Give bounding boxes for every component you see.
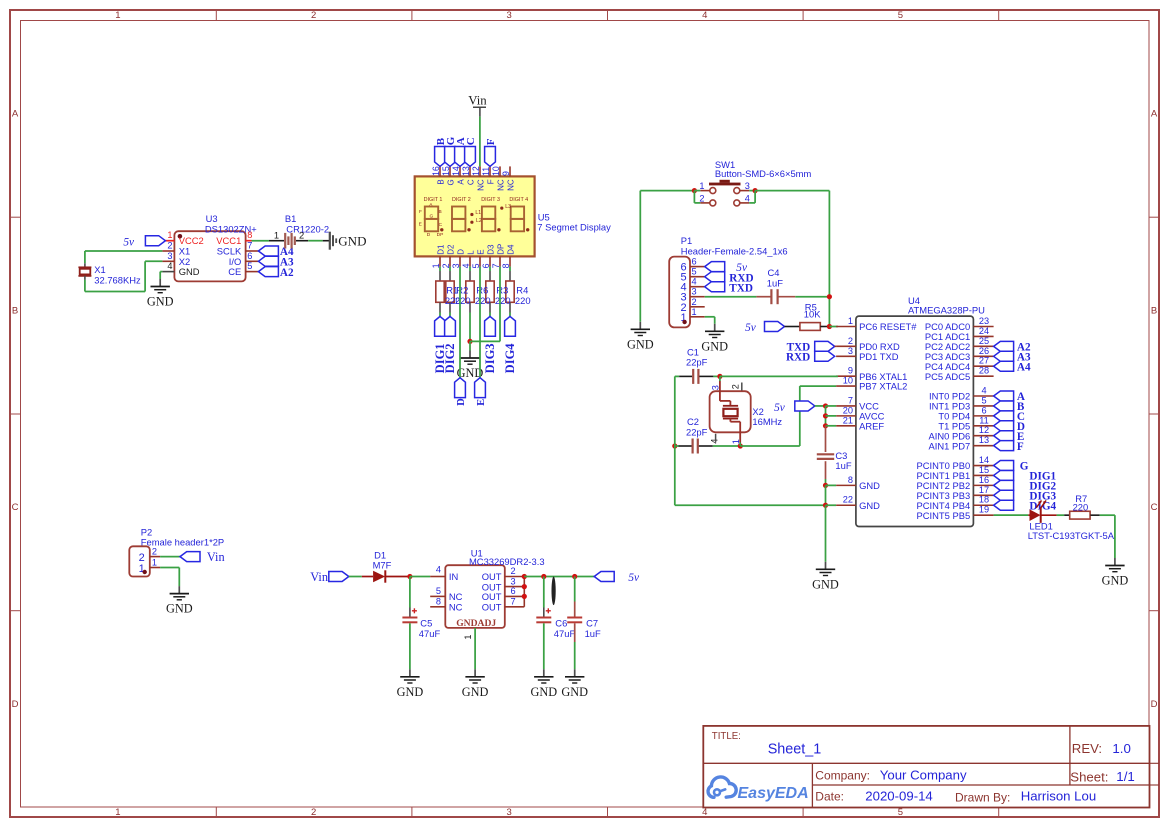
- svg-text:2: 2: [692, 297, 697, 307]
- svg-text:Sheet_1: Sheet_1: [768, 741, 822, 757]
- svg-text:GND: GND: [561, 685, 588, 699]
- svg-text:14: 14: [979, 455, 989, 465]
- svg-text:220: 220: [515, 295, 531, 306]
- svg-text:DIG4: DIG4: [503, 343, 517, 374]
- svg-text:12: 12: [979, 425, 989, 435]
- svg-text:17: 17: [979, 485, 989, 495]
- svg-text:2: 2: [167, 241, 172, 251]
- svg-text:13: 13: [979, 435, 989, 445]
- svg-text:2: 2: [731, 384, 741, 389]
- svg-text:26: 26: [979, 346, 989, 356]
- svg-text:2: 2: [510, 566, 515, 576]
- svg-text:DIG3: DIG3: [483, 343, 497, 373]
- svg-text:Sheet:: Sheet:: [1070, 770, 1108, 785]
- svg-text:C7: C7: [586, 618, 598, 629]
- svg-text:27: 27: [979, 356, 989, 366]
- svg-text:7: 7: [848, 395, 853, 405]
- svg-text:4: 4: [692, 277, 697, 287]
- svg-text:L: L: [466, 250, 475, 255]
- svg-text:5v: 5v: [774, 402, 786, 414]
- svg-text:RXD: RXD: [786, 351, 810, 363]
- svg-text:2: 2: [299, 229, 304, 240]
- svg-text:A2: A2: [280, 267, 294, 279]
- svg-text:220: 220: [495, 295, 511, 306]
- svg-text:2: 2: [152, 547, 157, 557]
- svg-text:10: 10: [491, 166, 501, 176]
- svg-text:19: 19: [979, 505, 989, 515]
- svg-text:GND: GND: [859, 480, 880, 491]
- svg-text:GND: GND: [627, 337, 654, 351]
- svg-text:220: 220: [1073, 501, 1089, 512]
- svg-text:GND: GND: [147, 295, 174, 309]
- svg-text:D3: D3: [486, 244, 495, 255]
- svg-text:E: E: [476, 399, 487, 406]
- svg-text:5: 5: [981, 395, 986, 405]
- svg-text:GND: GND: [397, 685, 424, 699]
- svg-text:47uF: 47uF: [554, 628, 576, 639]
- svg-text:C: C: [439, 222, 443, 228]
- svg-text:Vin: Vin: [310, 570, 328, 584]
- svg-text:F: F: [419, 209, 422, 215]
- svg-text:11: 11: [979, 415, 989, 425]
- svg-text:IN: IN: [449, 571, 458, 582]
- svg-text:5v: 5v: [745, 322, 757, 334]
- svg-text:22pF: 22pF: [686, 427, 708, 438]
- svg-text:C5: C5: [420, 618, 432, 629]
- svg-text:21: 21: [843, 415, 853, 425]
- svg-text:G: G: [446, 179, 455, 185]
- svg-text:22pF: 22pF: [686, 357, 708, 368]
- svg-text:D1: D1: [436, 244, 445, 255]
- svg-text:PB7 XTAL2: PB7 XTAL2: [859, 381, 907, 392]
- svg-text:3: 3: [507, 10, 512, 21]
- svg-text:1: 1: [167, 230, 172, 240]
- svg-text:3: 3: [510, 576, 515, 586]
- svg-text:TXD: TXD: [729, 282, 753, 294]
- svg-text:ATMEGA328P-PU: ATMEGA328P-PU: [908, 305, 985, 316]
- svg-text:220: 220: [455, 295, 471, 306]
- svg-text:DIGIT 3: DIGIT 3: [481, 197, 500, 203]
- svg-text:220: 220: [475, 295, 491, 306]
- svg-text:1uF: 1uF: [767, 278, 783, 289]
- svg-text:4: 4: [981, 386, 986, 396]
- svg-text:C: C: [12, 502, 19, 513]
- svg-text:DIG2: DIG2: [443, 343, 457, 373]
- svg-text:A: A: [456, 179, 465, 185]
- svg-text:4: 4: [702, 807, 707, 818]
- svg-text:4: 4: [436, 564, 441, 574]
- svg-text:PD1 TXD: PD1 TXD: [859, 351, 899, 362]
- svg-text:GND: GND: [701, 339, 728, 353]
- svg-text:6: 6: [981, 405, 986, 415]
- svg-text:EasyEDA: EasyEDA: [738, 785, 809, 802]
- svg-text:4: 4: [710, 439, 720, 444]
- svg-text:GND: GND: [812, 577, 839, 591]
- svg-text:1.0: 1.0: [1112, 741, 1131, 756]
- svg-text:1/1: 1/1: [1116, 769, 1135, 784]
- svg-text:12: 12: [471, 166, 481, 176]
- svg-text:4: 4: [745, 193, 750, 203]
- svg-text:F: F: [485, 138, 497, 145]
- svg-text:MC33269DR2-3.3: MC33269DR2-3.3: [469, 556, 545, 567]
- svg-text:GNDADJ: GNDADJ: [456, 618, 496, 629]
- svg-text:D: D: [427, 232, 431, 238]
- svg-text:Company:: Company:: [815, 769, 870, 783]
- svg-text:28: 28: [979, 366, 989, 376]
- svg-text:8: 8: [848, 475, 853, 485]
- svg-text:22: 22: [843, 495, 853, 505]
- svg-text:GND: GND: [179, 266, 200, 277]
- svg-text:1: 1: [152, 558, 157, 568]
- svg-text:OUT: OUT: [482, 591, 502, 602]
- svg-text:DIG4: DIG4: [1029, 500, 1056, 512]
- svg-text:NC: NC: [476, 179, 485, 191]
- svg-text:GND: GND: [462, 685, 489, 699]
- svg-text:3: 3: [507, 807, 512, 818]
- svg-text:D: D: [456, 249, 465, 255]
- svg-text:DP: DP: [496, 244, 505, 255]
- svg-text:2: 2: [311, 807, 316, 818]
- svg-text:5: 5: [898, 10, 903, 21]
- svg-text:13: 13: [461, 166, 471, 176]
- svg-text:AREF: AREF: [859, 420, 884, 431]
- svg-text:PC6 RESET#: PC6 RESET#: [859, 321, 917, 332]
- svg-text:3: 3: [848, 346, 853, 356]
- svg-text:C: C: [1151, 502, 1158, 513]
- svg-text:4: 4: [167, 261, 172, 271]
- svg-text:1: 1: [463, 634, 473, 639]
- svg-text:GND: GND: [859, 500, 880, 511]
- svg-text:NC: NC: [449, 602, 463, 613]
- svg-text:L3: L3: [505, 204, 511, 210]
- svg-text:4: 4: [702, 10, 707, 21]
- svg-text:23: 23: [979, 316, 989, 326]
- svg-text:6: 6: [692, 257, 697, 267]
- svg-text:16MHz: 16MHz: [752, 416, 782, 427]
- svg-text:D4: D4: [506, 244, 515, 255]
- svg-text:5v: 5v: [628, 572, 640, 584]
- svg-text:PC5 ADC5: PC5 ADC5: [925, 371, 970, 382]
- svg-text:1: 1: [115, 807, 120, 818]
- svg-text:6: 6: [510, 586, 515, 596]
- svg-text:10: 10: [843, 376, 853, 386]
- svg-text:24: 24: [979, 326, 989, 336]
- svg-text:14: 14: [451, 166, 461, 176]
- svg-text:NC: NC: [449, 591, 463, 602]
- svg-text:CR1220-2: CR1220-2: [286, 223, 329, 234]
- svg-text:L1: L1: [475, 210, 481, 216]
- svg-text:D: D: [456, 398, 467, 406]
- svg-text:5v: 5v: [123, 236, 135, 248]
- svg-text:7 Segmet Display: 7 Segmet Display: [537, 222, 611, 233]
- svg-text:DP: DP: [437, 232, 444, 238]
- svg-text:A: A: [12, 109, 19, 120]
- svg-text:1: 1: [699, 181, 704, 191]
- svg-text:NC: NC: [506, 179, 515, 191]
- svg-text:10K: 10K: [804, 308, 821, 319]
- svg-text:G: G: [430, 214, 434, 220]
- svg-text:A4: A4: [1017, 361, 1031, 373]
- svg-text:1: 1: [692, 307, 697, 317]
- svg-text:Harrison Lou: Harrison Lou: [1021, 789, 1096, 804]
- svg-text:25: 25: [979, 336, 989, 346]
- svg-text:18: 18: [979, 495, 989, 505]
- svg-text:8: 8: [436, 597, 441, 607]
- svg-text:PCINT5 PB5: PCINT5 PB5: [917, 510, 971, 521]
- svg-text:C: C: [465, 137, 477, 145]
- svg-text:3: 3: [692, 287, 697, 297]
- svg-text:G: G: [1020, 461, 1029, 473]
- svg-text:C6: C6: [555, 618, 567, 629]
- svg-text:Vin: Vin: [468, 94, 487, 108]
- svg-text:5: 5: [436, 586, 441, 596]
- svg-text:GND: GND: [338, 233, 366, 248]
- svg-text:7: 7: [247, 241, 252, 251]
- svg-text:2: 2: [699, 193, 704, 203]
- svg-text:DIGIT 2: DIGIT 2: [452, 197, 471, 203]
- svg-text:5: 5: [247, 261, 252, 271]
- svg-text:9: 9: [501, 171, 511, 176]
- svg-text:A: A: [1151, 109, 1158, 120]
- svg-text:5: 5: [692, 267, 697, 277]
- svg-text:F: F: [486, 179, 495, 184]
- svg-text:32.768KHz: 32.768KHz: [94, 274, 141, 285]
- svg-text:X1: X1: [94, 264, 105, 275]
- svg-text:D: D: [1151, 699, 1158, 710]
- svg-text:DIGIT 4: DIGIT 4: [509, 197, 528, 203]
- svg-text:5: 5: [898, 807, 903, 818]
- svg-text:DIGIT 1: DIGIT 1: [424, 197, 443, 203]
- svg-text:9: 9: [848, 366, 853, 376]
- svg-text:OUT: OUT: [482, 602, 502, 613]
- svg-text:1: 1: [848, 316, 853, 326]
- svg-text:TITLE:: TITLE:: [712, 731, 741, 742]
- svg-text:GND: GND: [166, 602, 193, 616]
- svg-text:1uF: 1uF: [585, 628, 601, 639]
- svg-text:D2: D2: [446, 244, 455, 255]
- svg-text:11: 11: [481, 167, 491, 176]
- svg-text:16: 16: [431, 166, 441, 176]
- svg-text:Drawn By:: Drawn By:: [955, 791, 1010, 805]
- svg-text:C2: C2: [687, 416, 699, 427]
- svg-text:B: B: [438, 209, 441, 215]
- svg-text:15: 15: [441, 166, 451, 176]
- svg-text:8: 8: [247, 230, 252, 240]
- svg-text:E: E: [476, 249, 485, 254]
- svg-text:Your Company: Your Company: [880, 767, 967, 782]
- svg-text:Header-Female-2.54_1x6: Header-Female-2.54_1x6: [681, 245, 788, 256]
- svg-text:1uF: 1uF: [835, 460, 851, 471]
- svg-text:20: 20: [843, 405, 853, 415]
- svg-text:1: 1: [274, 229, 279, 240]
- svg-text:LTST-C193TGKT-5A: LTST-C193TGKT-5A: [1028, 530, 1115, 541]
- svg-text:16: 16: [979, 475, 989, 485]
- svg-text:6: 6: [247, 251, 252, 261]
- svg-text:GND: GND: [1102, 574, 1129, 588]
- svg-text:2020-09-14: 2020-09-14: [865, 789, 932, 804]
- svg-text:CE: CE: [228, 266, 241, 277]
- svg-text:Vin: Vin: [207, 550, 225, 564]
- svg-text:3: 3: [745, 181, 750, 191]
- svg-text:F: F: [1017, 441, 1024, 453]
- svg-text:3: 3: [167, 251, 172, 261]
- svg-text:2: 2: [848, 336, 853, 346]
- svg-text:M7F: M7F: [373, 560, 392, 571]
- svg-text:47uF: 47uF: [419, 628, 441, 639]
- svg-text:1: 1: [115, 10, 120, 21]
- svg-text:B: B: [12, 306, 18, 317]
- svg-text:C: C: [466, 179, 475, 185]
- svg-text:L2: L2: [476, 218, 482, 224]
- svg-text:NC: NC: [496, 179, 505, 191]
- svg-text:7: 7: [510, 597, 515, 607]
- svg-text:E: E: [419, 222, 422, 228]
- svg-text:3: 3: [710, 385, 720, 390]
- svg-text:D: D: [12, 699, 19, 710]
- svg-text:B: B: [436, 179, 445, 184]
- svg-text:15: 15: [979, 465, 989, 475]
- svg-text:AIN1 PD7: AIN1 PD7: [929, 440, 971, 451]
- svg-text:Date:: Date:: [815, 790, 844, 804]
- svg-text:Button-SMD-6×6×5mm: Button-SMD-6×6×5mm: [715, 168, 812, 179]
- svg-text:B: B: [1151, 306, 1157, 317]
- svg-text:2: 2: [311, 10, 316, 21]
- svg-text:GND: GND: [530, 685, 557, 699]
- svg-text:REV:: REV:: [1072, 741, 1102, 756]
